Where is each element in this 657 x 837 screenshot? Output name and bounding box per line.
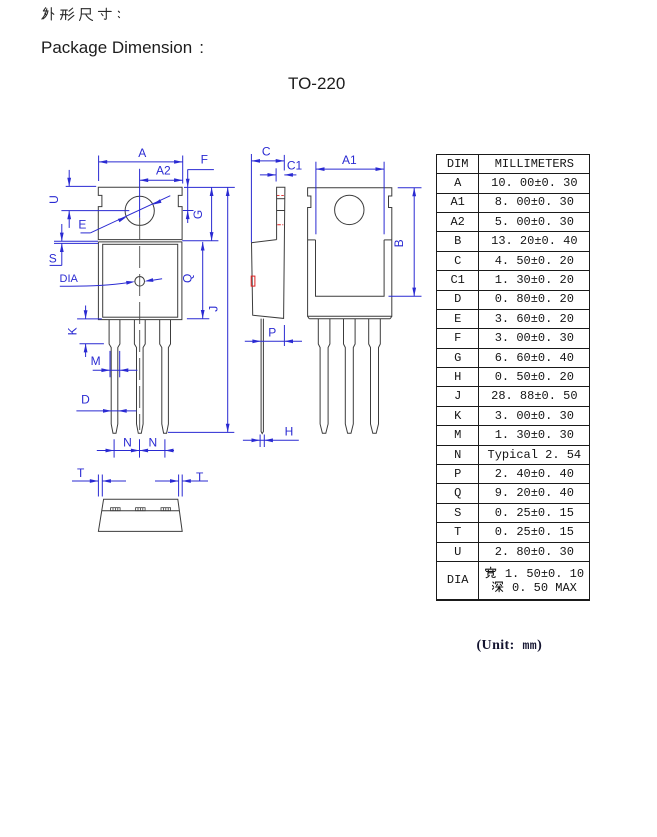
svg-text:D: D xyxy=(81,393,90,407)
svg-text:N: N xyxy=(148,435,157,449)
svg-text:A2: A2 xyxy=(156,163,171,177)
svg-text:K: K xyxy=(65,327,79,335)
svg-text:DIA: DIA xyxy=(60,273,79,285)
svg-text:N: N xyxy=(123,435,132,449)
svg-text:P: P xyxy=(268,325,276,339)
svg-text:F: F xyxy=(201,153,208,167)
svg-text:U: U xyxy=(47,195,61,204)
svg-text:A: A xyxy=(138,146,146,160)
svg-text:S: S xyxy=(49,251,57,265)
svg-text:T: T xyxy=(77,466,85,480)
svg-text:M: M xyxy=(91,354,101,368)
svg-text:C1: C1 xyxy=(287,159,303,173)
svg-text:A1: A1 xyxy=(342,153,357,167)
svg-text:B: B xyxy=(392,239,406,247)
svg-text:J: J xyxy=(206,306,220,312)
svg-text:T: T xyxy=(196,470,204,484)
svg-text:E: E xyxy=(78,217,86,231)
svg-text:H: H xyxy=(285,425,294,439)
svg-text:Q: Q xyxy=(180,274,194,283)
svg-text:C: C xyxy=(262,145,271,159)
svg-text:G: G xyxy=(191,210,205,219)
